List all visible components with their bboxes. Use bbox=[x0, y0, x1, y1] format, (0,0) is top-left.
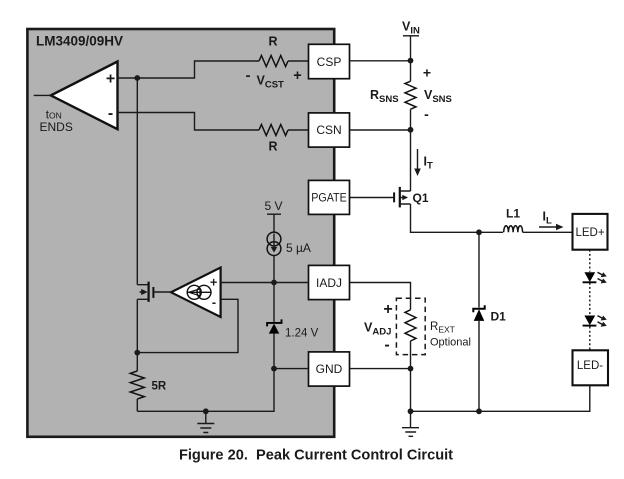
wire node to GND pin bbox=[274, 368, 309, 370]
wire VIN rail down / CSP / RSNS leads / CSN / to Q1 bbox=[350, 36, 411, 191]
node zener/GND bbox=[271, 366, 277, 372]
svg-text:-: - bbox=[246, 68, 251, 84]
label - (VADJ bottom) bbox=[384, 337, 389, 354]
svg-text:R: R bbox=[268, 35, 277, 49]
svg-text:5 µA: 5 µA bbox=[286, 241, 311, 255]
label RSNS bbox=[370, 88, 399, 105]
box LED+ bbox=[573, 214, 608, 250]
node main ground bbox=[408, 408, 414, 414]
inductor L1 bbox=[479, 207, 573, 233]
svg-text:CSP: CSP bbox=[317, 55, 342, 69]
wire node A down to internal MOSFET M1 bbox=[136, 78, 138, 285]
wire U2 + input to IADJ bbox=[221, 282, 309, 284]
wire Q1 drain to switch node bbox=[411, 204, 480, 232]
LED D2 bbox=[583, 272, 607, 283]
svg-text:Optional: Optional bbox=[430, 337, 471, 349]
label VADJ bbox=[364, 321, 391, 338]
box LED- bbox=[573, 350, 609, 385]
pin box IADJ bbox=[309, 265, 350, 299]
IC body LM3409/09HV bbox=[27, 29, 334, 437]
svg-text:+: + bbox=[383, 301, 392, 318]
current arrow IT bbox=[414, 149, 433, 176]
wire internal bottom rail bbox=[137, 369, 274, 412]
wire IADJ to REXT bbox=[350, 283, 411, 310]
node D1 bottom bbox=[476, 408, 482, 414]
LED D3 bbox=[583, 316, 607, 327]
zener diode 1.24V bbox=[267, 283, 318, 369]
node A (U1 + input junction) bbox=[134, 75, 140, 81]
svg-text:5 V: 5 V bbox=[264, 199, 282, 213]
comparator U1 (tON ENDS) bbox=[51, 62, 118, 130]
wire U1 + input to resistor R (top) and CSP bbox=[118, 61, 309, 78]
5V terminal bar bbox=[267, 213, 281, 215]
svg-text:-: - bbox=[212, 295, 216, 309]
label R (bottom) bbox=[268, 140, 277, 154]
wire PGATE to Q1 gate bbox=[350, 197, 394, 199]
transistor M1 (internal PMOS) bbox=[137, 282, 171, 302]
node switch (L1/D1) bbox=[476, 229, 482, 235]
label R (top) bbox=[268, 35, 277, 49]
caption Figure 20 bbox=[179, 447, 453, 463]
svg-text:GND: GND bbox=[316, 362, 343, 376]
svg-text:PGATE: PGATE bbox=[311, 193, 347, 205]
svg-text:+: + bbox=[106, 71, 115, 88]
svg-text:-: - bbox=[424, 106, 429, 122]
label VIN bbox=[402, 20, 420, 37]
dashed box REXT optional bbox=[396, 298, 425, 354]
label - (VSNS bottom) bbox=[424, 106, 429, 122]
VIN terminal bar bbox=[403, 35, 419, 37]
resistor R (bottom, CSN) bbox=[259, 125, 288, 136]
wire M1 drain down to node B bbox=[136, 299, 138, 352]
svg-text:Figure 20. Peak Current Contr: Figure 20. Peak Current Control Circuit bbox=[179, 447, 453, 463]
svg-text:ENDS: ENDS bbox=[40, 120, 73, 134]
opamp U2 (gm amplifier) bbox=[171, 268, 221, 318]
svg-text:L1: L1 bbox=[506, 207, 520, 221]
svg-text:LM3409/09HV: LM3409/09HV bbox=[36, 34, 123, 49]
svg-text:+: + bbox=[293, 68, 301, 84]
dotted LED string wire bbox=[589, 250, 591, 351]
wire U2 - input feedback bbox=[137, 299, 238, 352]
label REXT Optional bbox=[430, 321, 471, 349]
svg-text:5R: 5R bbox=[152, 381, 167, 393]
svg-text:+: + bbox=[210, 275, 217, 289]
svg-text:IADJ: IADJ bbox=[316, 276, 342, 290]
node B (5R top) bbox=[134, 350, 140, 356]
resistor REXT bbox=[405, 310, 416, 341]
label + (VSNS top) bbox=[423, 65, 431, 81]
current arrow IL bbox=[539, 210, 564, 231]
pin box CSN bbox=[309, 113, 350, 147]
wire 5uA to IADJ node bbox=[273, 255, 275, 282]
node REXT/GND bbox=[408, 366, 414, 372]
svg-text:1.24 V: 1.24 V bbox=[285, 328, 319, 340]
svg-text:-: - bbox=[108, 105, 113, 122]
svg-text:-: - bbox=[384, 337, 389, 354]
label + (VADJ top) bbox=[383, 301, 392, 318]
U1 output stub wire bbox=[34, 94, 51, 96]
wire REXT bottom to GND rail bbox=[350, 341, 411, 411]
pin box PGATE bbox=[309, 180, 350, 214]
label 5 V bbox=[264, 199, 282, 213]
label VSNS bbox=[424, 88, 452, 105]
pin box GND bbox=[309, 352, 350, 386]
wire U1 - input to resistor R (bottom) and CSN bbox=[118, 113, 309, 131]
node internal ground bbox=[203, 408, 209, 414]
svg-text:LED+: LED+ bbox=[575, 227, 604, 239]
svg-text:D1: D1 bbox=[491, 310, 507, 324]
svg-text:LED-: LED- bbox=[577, 360, 603, 372]
pin box CSP bbox=[309, 44, 350, 78]
resistor RSNS bbox=[405, 81, 416, 109]
resistor 5R bbox=[130, 353, 167, 412]
transistor Q1 (PMOS) bbox=[394, 187, 429, 208]
current source 5uA bbox=[267, 214, 311, 255]
node IADJ junction bbox=[271, 280, 277, 286]
diode D1 (Schottky) bbox=[473, 232, 506, 411]
svg-text:Q1: Q1 bbox=[413, 191, 429, 205]
node VIN/CSP bbox=[408, 58, 414, 64]
resistor R (top, CSP) bbox=[259, 56, 288, 67]
svg-text:+: + bbox=[423, 65, 431, 81]
ground symbol (internal) bbox=[197, 411, 214, 432]
label tON ENDS bbox=[40, 110, 73, 134]
ground symbol (main) bbox=[402, 411, 419, 436]
svg-text:CSN: CSN bbox=[316, 123, 341, 137]
label - VCST + bbox=[246, 68, 302, 90]
svg-text:R: R bbox=[268, 140, 277, 154]
wire LED- to bottom rail bbox=[411, 385, 590, 411]
node CSN bbox=[408, 127, 414, 133]
